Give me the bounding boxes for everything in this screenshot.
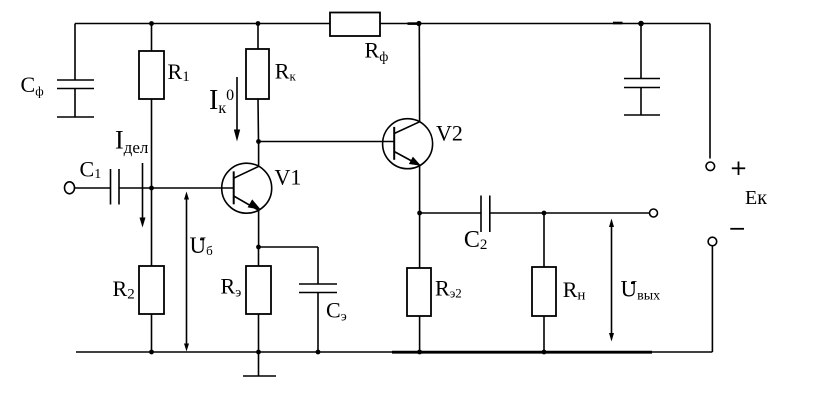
svg-text:C1: C1 [80,157,102,183]
wire top rail left [75,23,330,25]
resistor Rk [246,49,269,99]
node Rn top [542,211,547,216]
wire Re2 bottom lead [419,316,421,352]
node V1 base [149,186,154,191]
node rail Re2 [417,350,422,355]
measure arrow Ub [184,192,189,352]
resistor R2 [139,266,164,314]
svg-text:R2: R2 [113,276,135,302]
svg-text:Rэ: Rэ [221,274,242,301]
wire Rk bottom to node [257,99,260,142]
node top Rk [256,21,261,26]
svg-text:R1: R1 [168,59,190,85]
label Ub [190,233,214,258]
wire C1 to V1 base [119,187,234,189]
output terminal [650,209,658,217]
input terminal [65,182,75,194]
wire Rn bottom lead [543,316,545,352]
transistor V1 [222,163,272,213]
label Uout [621,277,661,304]
wire Re bottom lead [258,314,260,352]
wire Ce bottom lead [317,293,319,353]
wire minus terminal drop [711,246,713,352]
svg-text:Cф: Cф [21,72,44,99]
node rail Rn [542,350,547,355]
wire input to C1 [74,187,111,189]
wire top rail right [380,23,710,25]
node top V2 collector [416,21,421,26]
svg-text:Iдел: Iдел [115,126,149,158]
node top right cap [638,21,644,27]
svg-text:Rк: Rк [275,59,297,84]
wire R1 bottom to base node [151,99,153,188]
wire V2 emitter node to C2 [420,212,481,214]
wire right drop to plus terminal [709,24,711,159]
wire V1 collector lead [258,142,260,167]
node rail R2 [149,350,154,355]
node top R1 [149,21,154,26]
svg-text:V2: V2 [436,121,463,146]
wire Re2 top lead [419,213,421,268]
minus sign [730,228,744,230]
wire Rn top lead [543,213,545,267]
ground [243,352,276,376]
wire V2 collector lead [418,24,420,122]
wire Ce top lead [317,247,319,284]
svg-text:Uб: Uб [190,233,214,258]
node rail Ce [316,350,321,355]
current arrow Ik0 [234,77,240,142]
resistor Rf [330,13,380,37]
capacitor Cf [57,80,94,117]
wire V2 emitter lead [419,166,421,214]
wire R2 bottom lead [151,314,153,352]
wire C2 to output terminal [490,212,650,214]
capacitor Ce [299,284,337,293]
wire emitter node to Ce [259,246,319,248]
svg-text:Iк0: Iк0 [209,85,234,117]
wire rail dash left of right cap node [613,22,623,25]
svg-text:Rэ2: Rэ2 [435,276,462,301]
svg-text:C2: C2 [464,227,488,253]
measure arrow Uout [609,219,614,342]
svg-text:Cэ: Cэ [326,298,347,325]
resistor Re2 [407,268,431,316]
resistor R1 [139,51,164,99]
capacitor C1 [111,169,120,205]
wire base node to R2 [151,188,153,266]
plus sign [732,162,745,176]
wire bottom rail left [76,351,392,353]
svg-text:V1: V1 [275,165,302,190]
node rail Re [256,350,261,355]
wire Rk top lead [257,24,259,50]
terminal plus [706,162,715,171]
resistor Re [246,266,271,314]
wire rail dash left of V2 node [408,22,419,25]
svg-text:Uвых: Uвых [621,277,661,304]
svg-text:Rн: Rн [563,277,586,304]
terminal minus [708,237,717,246]
svg-text:Ек: Ек [745,187,767,209]
node V1 emitter [256,245,261,250]
wire node to V2 base [259,141,395,143]
capacitor C2 [481,196,490,233]
wire R1 top lead [151,24,153,52]
wire Cf bottom lead [74,89,76,118]
capacitor filter right [624,79,660,116]
resistor Rn [532,267,556,316]
wire V1 emitter lead [258,211,260,248]
wire Re top lead [258,247,260,266]
wire bottom rail right [652,351,712,353]
wire bottom rail thick [392,351,652,354]
wire right cap bottom lead [640,88,642,115]
node V2 emitter [417,211,422,216]
node V1 collector [256,139,261,144]
current arrow Idel [140,163,146,228]
transistor V2 [383,119,433,169]
svg-text:Rф: Rф [365,38,389,66]
wire right cap top lead [640,24,642,79]
wire Cf top lead [74,24,76,81]
